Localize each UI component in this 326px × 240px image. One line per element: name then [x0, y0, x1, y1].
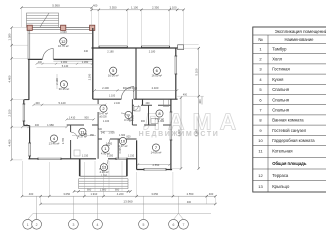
room7 bottom wall: [137, 169, 173, 171]
svg-text:2.400: 2.400: [152, 86, 159, 90]
svg-text:600: 600: [98, 128, 103, 131]
svg-text:16.00 м²: 16.00 м²: [108, 74, 119, 78]
right wall upper: [175, 48, 177, 99]
room circle 7 bedroom: [152, 144, 159, 151]
room circle 5 bedroom: [110, 67, 117, 74]
svg-text:12: 12: [258, 173, 263, 178]
svg-text:4.400: 4.400: [7, 75, 11, 82]
svg-text:2.180: 2.180: [149, 50, 156, 54]
table colhead row line: [253, 43, 326, 45]
small dim room 11: [72, 135, 96, 137]
room3 top dim row2: [37, 66, 93, 68]
kitchen top wall: [67, 124, 98, 126]
window right upper: [175, 56, 177, 74]
svg-text:400: 400: [187, 201, 192, 204]
svg-text:Холл: Холл: [272, 57, 282, 62]
svg-text:5: 5: [143, 223, 145, 227]
axis circle G: [179, 219, 189, 229]
svg-text:Спальня: Спальня: [272, 108, 289, 113]
svg-text:400: 400: [35, 124, 40, 127]
svg-text:±0.000: ±0.000: [99, 116, 107, 119]
svg-text:1: 1: [27, 223, 29, 227]
svg-text:1.360: 1.360: [106, 142, 113, 145]
svg-text:16.70 м²: 16.70 м²: [58, 44, 69, 48]
svg-text:900: 900: [84, 115, 89, 119]
wall stub hall-bath: [142, 99, 144, 105]
svg-text:14.06 м²: 14.06 м²: [151, 150, 162, 154]
bath front wall: [132, 104, 171, 106]
svg-text:4.400: 4.400: [7, 139, 11, 146]
table column divider: [267, 35, 269, 192]
svg-text:1.900: 1.900: [100, 187, 107, 191]
interior dim line bedrooms: [95, 89, 178, 91]
svg-text:1.310: 1.310: [82, 155, 89, 158]
axis circle E: [139, 219, 149, 229]
door arc tambour: [104, 139, 111, 146]
step wall and divider room3-5: [92, 28, 94, 99]
svg-text:Гостевой санузел: Гостевой санузел: [272, 128, 307, 133]
svg-text:2.190: 2.190: [88, 73, 92, 80]
interior dim room7: [138, 164, 170, 166]
svg-text:3.000: 3.000: [61, 60, 68, 64]
svg-text:400: 400: [35, 101, 40, 105]
svg-text:10: 10: [121, 139, 126, 144]
room circle 6 bedroom: [153, 67, 160, 74]
svg-text:1.100: 1.100: [170, 6, 177, 10]
svg-text:Крыльцо: Крыльцо: [272, 184, 290, 189]
porch front edge: [80, 175, 127, 177]
terrace post P3: [90, 25, 95, 30]
hall top wall: [93, 98, 178, 100]
svg-text:Наименование: Наименование: [284, 37, 314, 42]
axis circle C: [69, 219, 79, 229]
svg-text:400: 400: [146, 102, 151, 105]
svg-text:540: 540: [101, 132, 106, 135]
bath bottom wall: [132, 124, 171, 126]
svg-text:2.550: 2.550: [187, 192, 194, 196]
svg-text:Ванная комната: Ванная комната: [272, 118, 304, 123]
table row lines: [253, 54, 326, 181]
corner box chimney: [178, 45, 184, 50]
kitchen-boiler divider: [70, 125, 72, 159]
window bottom kitchen: [38, 158, 61, 159]
svg-text:400: 400: [93, 4, 98, 8]
svg-text:5.950: 5.950: [52, 3, 60, 7]
svg-text:1.980: 1.980: [47, 123, 54, 127]
svg-text:1.360: 1.360: [158, 120, 165, 123]
svg-text:1.900: 1.900: [108, 132, 115, 135]
bath 8 fixture toilet: [164, 100, 169, 107]
svg-text:1.300: 1.300: [119, 134, 126, 137]
room circle 13 porch: [100, 164, 107, 171]
svg-text:1.360: 1.360: [82, 60, 89, 64]
svg-text:13.46 м²: 13.46 м²: [49, 141, 60, 145]
top dim chain 2: [92, 9, 184, 11]
svg-text:2.400: 2.400: [102, 86, 109, 90]
hall left wall: [97, 99, 99, 125]
room circle 8 bath: [156, 110, 163, 117]
top dim chain 1: [22, 7, 92, 9]
left wall step: [24, 99, 29, 101]
svg-text:2.780: 2.780: [62, 137, 65, 144]
bottom extension lines: [22, 161, 215, 204]
svg-text:6: 6: [173, 223, 175, 227]
entrance door arc: [43, 49, 54, 60]
svg-text:2.350: 2.350: [107, 155, 114, 158]
svg-text:400: 400: [183, 93, 188, 96]
interior dim bath top: [67, 118, 94, 120]
bath 9-8 divider: [148, 105, 150, 125]
left extension lines: [12, 28, 28, 160]
terrace post P1: [27, 25, 32, 30]
svg-text:4.20 м²: 4.20 м²: [99, 170, 108, 174]
svg-text:Кухня: Кухня: [272, 77, 283, 82]
door arc boiler: [71, 132, 78, 139]
svg-text:Котельная: Котельная: [272, 148, 292, 153]
terrace post P2: [61, 25, 66, 30]
right wall lower: [170, 99, 172, 170]
svg-text:1.410: 1.410: [69, 115, 76, 119]
svg-text:950: 950: [87, 187, 92, 191]
room3 top dim row1: [37, 63, 93, 65]
terrace deck line: [29, 33, 93, 35]
svg-text:1.100: 1.100: [109, 95, 116, 98]
window room7 bottom: [144, 169, 166, 170]
top wall right section: [92, 47, 178, 49]
svg-text:4.07 м²: 4.07 м²: [118, 144, 127, 148]
window W1 top: [99, 46, 127, 47]
table header row line: [253, 34, 326, 36]
svg-text:5.140: 5.140: [59, 101, 66, 105]
left wall step 2: [24, 125, 30, 127]
svg-text:12: 12: [61, 39, 66, 44]
porch right wall: [126, 159, 128, 176]
svg-text:950: 950: [90, 134, 95, 137]
svg-text:1.760: 1.760: [101, 174, 108, 177]
window left lower 2: [29, 143, 31, 156]
room circle 2 hall: [100, 105, 107, 112]
svg-text:Тамбур: Тамбур: [272, 46, 287, 51]
window left lower 1: [23, 104, 25, 121]
svg-text:900: 900: [141, 120, 146, 123]
svg-text:13: 13: [258, 184, 263, 189]
axis circle F: [169, 219, 179, 229]
bath 9 fixture: [134, 107, 140, 112]
svg-text:5.100: 5.100: [194, 68, 198, 75]
svg-text:Гардеробная комната: Гардеробная комната: [272, 138, 315, 143]
room circle 4 kitchen: [50, 135, 57, 142]
left dim chain: [11, 28, 13, 160]
svg-text:400: 400: [209, 192, 214, 196]
svg-text:2.550: 2.550: [153, 163, 160, 167]
window bottom small: [116, 158, 127, 159]
stairs break line: [40, 13, 49, 27]
top extension lines: [22, 8, 184, 46]
svg-text:Гостиная: Гостиная: [272, 67, 290, 72]
interior dim kitchen left: [22, 126, 66, 128]
room circle 11 boiler: [79, 128, 86, 135]
svg-text:№: №: [258, 37, 263, 42]
svg-text:2.180: 2.180: [107, 50, 114, 54]
interior dim line room3: [34, 104, 105, 106]
porch left wall: [79, 159, 81, 176]
svg-text:п.640: п.640: [60, 30, 67, 34]
bottom dim chain 2 total: [41, 203, 216, 205]
left wall lower A: [23, 100, 25, 126]
svg-text:Терраса: Терраса: [272, 173, 289, 178]
boiler equipment: [74, 150, 80, 156]
terrace left edge window: [28, 30, 30, 59]
svg-text:13: 13: [102, 165, 107, 170]
svg-text:900 (до 2.10): 900 (до 2.10): [123, 87, 137, 90]
svg-text:2: 2: [36, 223, 38, 227]
svg-text:1.100: 1.100: [131, 6, 138, 10]
porch dim chain: [74, 190, 130, 192]
svg-text:400: 400: [38, 61, 43, 64]
svg-text:Экспликация помещений: Экспликация помещений: [275, 28, 326, 34]
svg-text:Общая площадь: Общая площадь: [272, 161, 307, 166]
room circle 9 wc: [125, 111, 132, 118]
svg-text:3.050: 3.050: [63, 192, 70, 196]
tambour top wall: [98, 138, 137, 140]
axis tie line: [33, 212, 211, 214]
svg-text:4.400: 4.400: [177, 129, 181, 136]
svg-text:4.220: 4.220: [117, 192, 124, 196]
svg-text:1.910: 1.910: [91, 192, 98, 196]
svg-text:3: 3: [72, 223, 74, 227]
svg-text:950: 950: [115, 187, 120, 191]
tambour-wardrobe divider: [117, 139, 119, 159]
left wall upper: [28, 59, 30, 100]
svg-text:5.000: 5.000: [194, 129, 198, 136]
svg-text:1.360: 1.360: [81, 133, 88, 136]
axis circle D: [93, 219, 103, 229]
svg-text:4: 4: [97, 223, 99, 227]
svg-text:Спальня: Спальня: [272, 87, 289, 92]
svg-text:400: 400: [198, 99, 202, 104]
top wall left section: [28, 58, 93, 60]
svg-text:2.350: 2.350: [152, 6, 159, 10]
svg-text:1.100: 1.100: [103, 120, 110, 123]
svg-text:3.550: 3.550: [110, 6, 117, 10]
window W2 top: [141, 46, 169, 47]
right dim line 5.100: [198, 48, 200, 168]
room circle 12 terrace: [60, 38, 67, 45]
svg-text:1.335: 1.335: [132, 114, 135, 121]
axis circle A: [23, 219, 33, 229]
divider rooms 5-6: [135, 48, 137, 99]
svg-text:400: 400: [29, 192, 34, 196]
top wall left inner line: [53, 60, 92, 62]
axis circle B: [32, 219, 42, 229]
door arc hall-bath: [133, 105, 139, 111]
svg-text:2.100: 2.100: [7, 109, 11, 116]
boiler right wall: [97, 125, 99, 159]
window right lower: [170, 112, 172, 140]
table outer border: [253, 27, 326, 192]
svg-text:2.100: 2.100: [114, 102, 121, 105]
right dim line lower: [180, 98, 182, 169]
axis stems: [37, 196, 179, 219]
svg-text:2.425: 2.425: [119, 147, 122, 154]
svg-text:3.050: 3.050: [151, 192, 158, 196]
svg-text:440: 440: [84, 50, 89, 53]
svg-text:30.35 м²: 30.35 м²: [59, 87, 70, 91]
svg-text:820: 820: [127, 135, 132, 138]
svg-text:5.140: 5.140: [62, 64, 69, 68]
right dim 400 tick: [201, 96, 203, 104]
svg-text:1.310: 1.310: [128, 155, 135, 158]
stairs treads: [27, 16, 59, 26]
stairs outline top-left: [27, 13, 59, 27]
left wall lower B: [29, 126, 31, 159]
svg-text:7: 7: [183, 223, 185, 227]
bottom dim chain 1: [22, 195, 215, 197]
bath 8 fixture sink: [151, 119, 158, 124]
terrace front edge double line: [29, 27, 93, 29]
bath 9 left wall: [131, 99, 133, 125]
door arc hall-wardrobe: [121, 113, 130, 122]
svg-text:10: 10: [258, 138, 263, 143]
svg-text:Спальня: Спальня: [272, 97, 289, 102]
room7 left wall: [136, 140, 138, 169]
door arc porch: [99, 160, 108, 169]
svg-text:16.00 м²: 16.00 м²: [151, 74, 162, 78]
bottom wall: [28, 158, 136, 160]
hall door arc: [121, 87, 134, 100]
porch steps: [79, 179, 128, 189]
room circle 10 wardrobe: [119, 137, 126, 144]
svg-text:140: 140: [24, 124, 29, 127]
svg-text:13.960: 13.960: [123, 200, 133, 204]
room circle 1 tambour: [102, 145, 109, 152]
room circle 3 living: [60, 81, 67, 88]
svg-text:1.380: 1.380: [7, 33, 11, 40]
